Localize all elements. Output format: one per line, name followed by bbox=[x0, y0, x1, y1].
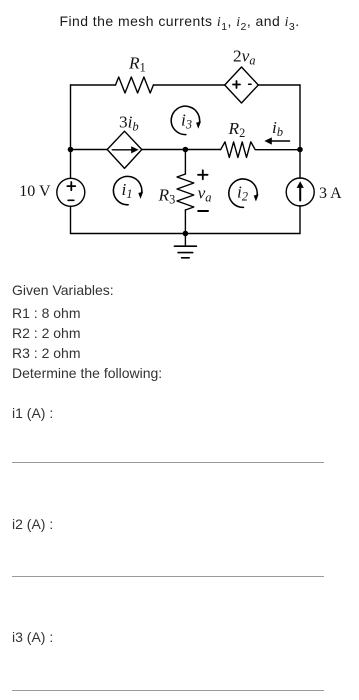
svg-text:3ib: 3ib bbox=[119, 113, 139, 134]
svg-text:va: va bbox=[198, 184, 212, 205]
svg-text:ib: ib bbox=[272, 118, 283, 139]
svg-text:R2: R2 bbox=[228, 119, 246, 140]
svg-text:R3: R3 bbox=[158, 186, 176, 207]
svg-text:i2: i2 bbox=[237, 183, 248, 204]
svg-text:2va: 2va bbox=[233, 47, 255, 68]
svg-text:10 V: 10 V bbox=[19, 183, 51, 200]
svg-text:i3: i3 bbox=[181, 111, 192, 132]
svg-text:3 A: 3 A bbox=[319, 185, 342, 202]
svg-text:i1: i1 bbox=[122, 180, 133, 201]
svg-text:R1: R1 bbox=[128, 54, 146, 75]
